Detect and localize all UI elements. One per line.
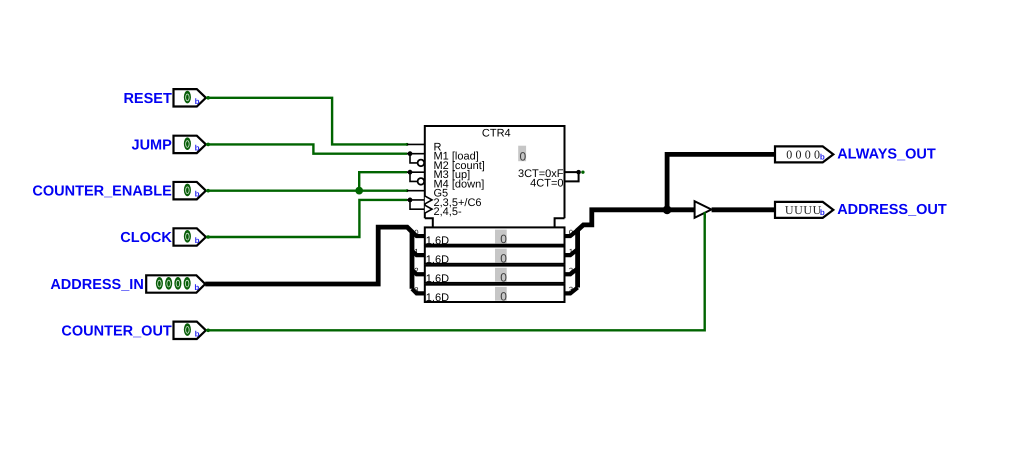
pin stub M1 xyxy=(407,153,425,155)
wire branch COUNTER_ENABLE to M3 xyxy=(359,172,407,191)
svg-text:0: 0 xyxy=(500,251,507,265)
svg-text:2,4,5-: 2,4,5- xyxy=(434,206,462,218)
svg-text:0: 0 xyxy=(520,150,527,164)
stub clock second xyxy=(410,200,425,209)
svg-text:1: 1 xyxy=(414,247,418,256)
wire bus tap row 3 left xyxy=(412,289,425,294)
svg-text:2: 2 xyxy=(414,266,418,275)
svg-text:ALWAYS_OUT: ALWAYS_OUT xyxy=(837,147,936,163)
svg-text:0: 0 xyxy=(500,290,507,304)
svg-text:1,6D: 1,6D xyxy=(426,254,449,266)
svg-text:0: 0 xyxy=(795,148,801,162)
pin stub R xyxy=(407,143,425,145)
svg-text:JUMP: JUMP xyxy=(132,137,173,153)
input ADDRESS_IN xyxy=(50,275,205,293)
register row 0 xyxy=(425,227,565,247)
wire driver to ADDRESS_OUT xyxy=(712,207,775,212)
wire bus tap row 3 right xyxy=(565,287,578,293)
svg-text:COUNTER_ENABLE: COUNTER_ENABLE xyxy=(32,184,172,200)
svg-text:b: b xyxy=(195,329,200,338)
svg-text:CLOCK: CLOCK xyxy=(120,230,172,246)
clock triangle 1 xyxy=(425,196,432,204)
svg-text:RESET: RESET xyxy=(123,91,171,107)
bubble M4 xyxy=(410,172,417,181)
input COUNTER_OUT xyxy=(61,322,205,340)
wire driver enable tip xyxy=(704,212,706,219)
output ADDRESS_OUT xyxy=(775,202,947,218)
wire JUMP to M1 xyxy=(206,144,407,153)
wire bus tap row 0 right xyxy=(565,230,578,236)
wire bus tap row 0 left xyxy=(412,231,425,236)
svg-text:1,6D: 1,6D xyxy=(426,235,449,247)
wire bus tap row 2 left xyxy=(412,270,425,275)
svg-text:0: 0 xyxy=(786,148,792,162)
value box CTR4 xyxy=(518,146,526,162)
svg-text:b: b xyxy=(195,190,200,199)
wire COUNTER_ENABLE to G5 xyxy=(206,189,407,191)
wire bus tap row 1 left xyxy=(412,251,425,256)
register row 2 xyxy=(425,266,565,286)
wire bus tap row 1 right xyxy=(565,249,578,255)
driver U1 xyxy=(695,201,712,218)
svg-text:0: 0 xyxy=(569,228,573,237)
svg-text:ADDRESS_IN: ADDRESS_IN xyxy=(50,277,143,293)
input JUMP xyxy=(132,136,206,154)
svg-text:0: 0 xyxy=(805,148,811,162)
junction main bus xyxy=(663,205,672,214)
svg-text:1,6D: 1,6D xyxy=(426,273,449,285)
output ALWAYS_OUT xyxy=(775,146,936,162)
svg-text:2: 2 xyxy=(569,266,573,275)
svg-text:b: b xyxy=(195,97,200,106)
register row 1 xyxy=(425,247,565,267)
svg-text:3: 3 xyxy=(569,285,573,294)
wire bus tap row 2 right xyxy=(565,268,578,274)
CTR4 component box xyxy=(425,126,565,228)
clock triangle 2 xyxy=(425,205,432,213)
svg-text:0: 0 xyxy=(500,232,507,246)
wire 3CT/4CT loop xyxy=(565,172,579,181)
svg-text:b: b xyxy=(195,236,200,245)
wire RESET to R xyxy=(206,98,407,145)
svg-text:0: 0 xyxy=(414,228,418,237)
svg-text:0: 0 xyxy=(500,270,507,284)
input CLOCK xyxy=(120,228,206,246)
pin stub clock C6 xyxy=(407,199,425,201)
wire COUNTER_OUT to driver enable xyxy=(206,214,705,330)
wire to ALWAYS_OUT xyxy=(667,154,775,209)
svg-text:b: b xyxy=(195,143,200,152)
svg-text:U: U xyxy=(794,203,803,217)
input COUNTER_ENABLE xyxy=(32,182,205,200)
svg-text:CTR4: CTR4 xyxy=(482,127,511,139)
svg-text:1: 1 xyxy=(569,247,573,256)
svg-text:U: U xyxy=(785,203,794,217)
svg-text:1,6D: 1,6D xyxy=(426,292,449,304)
svg-text:4CT=0: 4CT=0 xyxy=(530,178,563,190)
svg-text:COUNTER_OUT: COUNTER_OUT xyxy=(61,323,172,339)
wire output bus to driver xyxy=(578,210,696,288)
junction COUNTER_ENABLE xyxy=(355,187,363,195)
svg-text:b: b xyxy=(820,208,825,217)
svg-text:b: b xyxy=(820,153,825,162)
svg-text:U: U xyxy=(803,203,812,217)
register row 3 xyxy=(425,285,565,305)
svg-text:3: 3 xyxy=(414,285,418,294)
pin stub G5 xyxy=(407,190,425,192)
input RESET xyxy=(123,89,205,107)
svg-text:b: b xyxy=(194,283,199,292)
bus ADDRESS_IN xyxy=(205,227,412,289)
bubble M2 xyxy=(410,154,417,163)
pin stub M3 xyxy=(407,171,425,173)
svg-text:ADDRESS_OUT: ADDRESS_OUT xyxy=(837,202,947,218)
wire CLOCK to clock pin xyxy=(206,200,407,237)
